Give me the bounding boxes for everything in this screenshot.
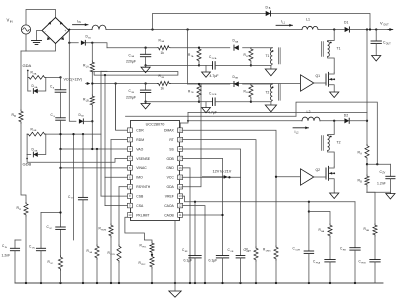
wire pin4 VSENSE route	[27, 158, 127, 162]
wire to Vout node	[350, 29, 389, 31]
wire pin9 CSA route	[105, 205, 127, 207]
pin 15 VCC	[178, 175, 183, 180]
wire T1 to Q1 drain	[328, 57, 335, 73]
svg-text:LB: LB	[86, 99, 89, 102]
ground divider	[389, 192, 391, 193]
transformer T1 secondary	[270, 48, 272, 64]
svg-text:18: 18	[179, 147, 182, 151]
svg-text:15: 15	[179, 175, 182, 179]
svg-text:CAOA: CAOA	[164, 204, 174, 208]
svg-text:+: +	[64, 29, 66, 33]
resistor RB left	[19, 110, 23, 123]
resistor RDMX leg	[274, 246, 278, 260]
svg-text:0.1μF: 0.1μF	[184, 259, 193, 263]
ground channel B	[205, 102, 207, 108]
svg-text:IMO: IMO	[136, 176, 143, 180]
wire pin5 VINAC route	[61, 167, 128, 169]
svg-text:D1: D1	[344, 20, 348, 24]
wire pin13 VREF route	[183, 196, 355, 202]
wire divider tap	[366, 159, 368, 175]
wire GDA long line	[92, 83, 157, 85]
resistor RLB	[90, 95, 94, 106]
resistor RGA	[28, 76, 46, 80]
wire rail to L1	[106, 29, 302, 31]
svg-text:L2: L2	[307, 110, 311, 114]
svg-text:CAOB: CAOB	[164, 213, 174, 217]
arrow IL1	[276, 24, 293, 26]
diode DBA	[234, 45, 239, 50]
wire T2 primary feed	[328, 121, 335, 136]
svg-text:DCB: DCB	[212, 94, 217, 96]
ground T2 secondary	[265, 105, 276, 112]
wire bypass riser	[153, 14, 371, 30]
ground channel A	[205, 65, 207, 72]
wire block A rail	[107, 47, 157, 49]
capacitor CREF leg	[194, 202, 196, 256]
wire driver to gate	[314, 82, 326, 84]
capacitor CVIN leg	[60, 168, 62, 227]
pin 7 RSYNTH	[127, 184, 132, 189]
pin 17 GDB	[178, 156, 183, 161]
diode DB2	[79, 119, 83, 124]
resistor RA divider	[365, 145, 369, 160]
transformer T1 primary	[328, 42, 330, 57]
svg-text:220μF: 220μF	[126, 60, 136, 64]
wire Vout sense down	[366, 30, 368, 145]
wire bridge right corner down	[69, 31, 76, 122]
pin 4 VSENSE	[127, 156, 132, 161]
svg-text:ZV: ZV	[382, 172, 385, 175]
svg-text:GB: GB	[34, 151, 38, 153]
wire AC to bridge bottom	[21, 44, 56, 52]
wire block B vertical	[115, 84, 117, 131]
wire bridge to DB1	[69, 42, 78, 44]
svg-text:UCC28070: UCC28070	[146, 123, 165, 127]
svg-text:GDA: GDA	[166, 185, 174, 189]
wire pin1 CDR route	[116, 129, 128, 131]
diode DB1	[81, 40, 85, 45]
diode D2	[344, 118, 349, 123]
wire L2 to D2	[320, 120, 344, 122]
diode DGB	[27, 154, 31, 156]
capacitor CSS leg	[236, 255, 245, 257]
arrow Iin	[73, 24, 89, 26]
svg-text:CDR: CDR	[136, 129, 144, 133]
capacitor CPKA	[325, 259, 335, 261]
driver U1	[301, 75, 314, 91]
inductor L1	[302, 26, 318, 29]
svg-text:VCC: VCC	[167, 176, 175, 180]
pin 18 SS	[178, 147, 183, 152]
pin 6 IMO	[127, 175, 132, 180]
inductor input choke	[92, 25, 106, 29]
wire pin6 IMO route	[105, 176, 127, 178]
ground CVA	[141, 67, 150, 72]
resistor RLA	[90, 61, 94, 73]
capacitor CAOB comp	[216, 255, 228, 257]
svg-text:13: 13	[179, 194, 182, 198]
ground COUT	[372, 56, 381, 62]
wire IC gnd drop	[174, 221, 176, 283]
svg-text:GDB: GDB	[166, 157, 174, 161]
wire Rbias B leg	[367, 192, 375, 224]
capacitor CPKB	[370, 259, 380, 261]
svg-text:VN: VN	[32, 247, 35, 249]
pin 20 DMAX	[178, 128, 183, 133]
svg-text:SYN: SYN	[110, 254, 115, 256]
ground Q1 source	[330, 92, 339, 98]
wire pin15 VCC route	[183, 176, 241, 178]
capacitor CVA 220uF	[145, 48, 147, 55]
wire L1 node to T1 primary	[328, 30, 335, 42]
svg-text:Q2: Q2	[316, 168, 321, 172]
resistor RTA	[197, 48, 201, 62]
svg-text:17: 17	[179, 157, 182, 161]
resistor RSYN	[117, 245, 121, 262]
wire VCC column	[91, 43, 93, 61]
wire pin14 GDA route	[183, 84, 201, 187]
wire pin7 RSYNTH route	[119, 186, 127, 188]
wire bus from rail down	[187, 30, 189, 85]
svg-text:L1: L1	[306, 18, 310, 22]
svg-text:GND: GND	[166, 166, 174, 170]
svg-text:DMAX: DMAX	[164, 129, 175, 133]
resistor RVA 1k	[157, 46, 170, 50]
pin 19 RT	[178, 137, 183, 142]
wire L1 to D1	[318, 29, 344, 31]
svg-text:T2: T2	[266, 90, 270, 94]
diode D1	[345, 27, 350, 32]
svg-text:10: 10	[128, 213, 131, 217]
svg-text:T1: T1	[266, 54, 270, 58]
svg-text:19: 19	[179, 138, 182, 142]
ground T1 secondary	[265, 69, 276, 76]
svg-text:Q1: Q1	[316, 74, 321, 78]
svg-text:16: 16	[179, 166, 182, 170]
wire channel B lower	[198, 98, 200, 101]
svg-text:T2: T2	[337, 141, 341, 145]
wire T2 to Q2 drain	[328, 151, 335, 167]
pin 13 VREF	[178, 194, 183, 199]
wire VREF leg down	[354, 202, 356, 248]
wire DMAX riser	[180, 113, 188, 124]
wire pin2 RDM route	[111, 139, 127, 141]
svg-text:14: 14	[179, 185, 182, 189]
capacitor CDCA	[212, 62, 214, 70]
wire channel B sense rail	[188, 83, 230, 85]
svg-text:220μF: 220μF	[126, 95, 136, 99]
pin 16 GND	[178, 166, 183, 171]
wire D2 to Vout rail	[349, 120, 367, 122]
svg-text:RB: RB	[343, 249, 347, 251]
capacitor CVB 220uF	[145, 84, 147, 91]
svg-text:PKA: PKA	[316, 261, 321, 264]
wire channel A sense rail	[188, 47, 230, 49]
resistor RBIASA	[328, 224, 332, 237]
svg-text:GA: GA	[34, 86, 38, 89]
wire channel B lower left	[146, 101, 199, 103]
svg-text:12: 12	[179, 204, 182, 208]
wire driver B drop	[308, 202, 310, 251]
svg-text:G: G	[53, 116, 55, 118]
wire pin8 CSB route	[101, 195, 127, 197]
wire bus pair upper	[92, 72, 178, 76]
pin 5 VINAC	[127, 166, 132, 171]
diode DGA	[27, 77, 29, 91]
op-amp U1 UCC28070 IC body	[131, 121, 180, 221]
svg-text:4.7μF: 4.7μF	[208, 110, 217, 114]
transistor Q1	[325, 74, 327, 85]
svg-text:RT: RT	[169, 138, 173, 142]
svg-text:VREF: VREF	[165, 194, 174, 198]
wire divider bottom	[367, 186, 390, 192]
gate network B	[26, 134, 28, 154]
svg-text:1k: 1k	[161, 87, 165, 91]
wire driver2 to gate	[314, 176, 326, 178]
wire pin20 route to driver B	[183, 130, 276, 246]
capacitor COUT	[375, 30, 377, 42]
resistor RA left	[24, 203, 28, 217]
wire gate A out	[46, 76, 61, 78]
pin 10 PKLIMIT	[127, 213, 132, 218]
wire pin18 SS route	[183, 149, 241, 256]
svg-text:CSA: CSA	[136, 204, 144, 208]
arrow IL2	[293, 127, 309, 129]
wire branch to RbiasA leg	[309, 212, 330, 225]
wire gate B out	[46, 133, 101, 135]
wire pin11 CAOB route	[183, 214, 223, 216]
svg-text:IN: IN	[10, 19, 13, 23]
resistor RBB burden	[249, 84, 253, 98]
ground CVB	[141, 104, 150, 109]
pin 9 CSA	[127, 203, 132, 208]
AC source VIN	[21, 25, 30, 34]
ground main	[169, 291, 181, 297]
wire pin12 CAOA route	[183, 206, 205, 283]
resistor RB divider	[365, 175, 369, 186]
svg-text:1.2nF: 1.2nF	[2, 254, 11, 258]
svg-text:1k: 1k	[161, 51, 165, 55]
svg-text:20: 20	[179, 128, 182, 132]
svg-text:VINAC: VINAC	[136, 166, 147, 170]
svg-text:SS: SS	[169, 147, 174, 151]
pin 12 CAOA	[178, 203, 183, 208]
svg-text:CDR: CDR	[295, 249, 300, 251]
arrow VOUT	[389, 28, 392, 31]
wire VAO comp leg	[96, 149, 98, 245]
svg-text:GDA: GDA	[23, 63, 32, 68]
wire VAO cap leg	[82, 134, 84, 197]
svg-text:OUT: OUT	[386, 42, 392, 45]
wire L2 feed	[188, 120, 302, 122]
svg-text:RDM: RDM	[101, 229, 106, 231]
svg-text:VC: VC	[49, 228, 52, 230]
svg-text:GB: GB	[33, 130, 37, 132]
wire input rail	[69, 29, 92, 31]
svg-text:OUT: OUT	[383, 23, 389, 27]
capacitor CB	[60, 77, 62, 89]
svg-text:RSYNTH: RSYNTH	[136, 185, 150, 189]
diode DBB	[234, 81, 239, 86]
pin 2 RDM	[127, 137, 132, 142]
wire pin16 GND route	[183, 168, 190, 283]
capacitor CREF2	[350, 247, 360, 249]
wire stub left mid	[73, 134, 75, 240]
inductor L2	[302, 117, 320, 121]
wire branch driver B input	[276, 176, 301, 178]
bridge rectifier BR1	[42, 18, 69, 44]
wire pin3 VAO route	[61, 148, 128, 150]
transformer T2 secondary	[270, 84, 272, 100]
svg-text:DCA: DCA	[212, 57, 217, 60]
gate network A	[27, 70, 29, 72]
pin 14 GDA	[178, 184, 183, 189]
svg-text:LA: LA	[86, 65, 89, 68]
svg-text:VSENSE: VSENSE	[136, 157, 150, 161]
ground bridge	[37, 31, 43, 41]
capacitor CDCB	[212, 98, 214, 106]
pin 3 VAO	[127, 147, 132, 152]
svg-text:VC: VC	[50, 263, 53, 265]
pin 1 CDR	[127, 128, 132, 133]
svg-text:VAO: VAO	[136, 147, 143, 151]
wire ground rail	[15, 282, 383, 284]
resistor RPK1	[150, 242, 154, 254]
svg-text:PKLIMIT: PKLIMIT	[136, 213, 149, 217]
capacitor CZV	[389, 164, 391, 176]
svg-text:VCC(>13V): VCC(>13V)	[64, 77, 82, 81]
svg-text:GA: GA	[33, 72, 37, 75]
wire pin10 PKLIMIT route	[125, 217, 152, 242]
resistor RRT leg	[254, 247, 258, 261]
svg-text:RDM: RDM	[136, 138, 144, 142]
svg-text:T1: T1	[337, 47, 341, 51]
wire channel A lower left	[146, 64, 199, 66]
svg-text:1.2nF: 1.2nF	[377, 182, 386, 186]
resistor RVAO	[95, 245, 99, 259]
wire AC to bridge top	[26, 10, 56, 25]
resistor RRDM	[109, 224, 113, 237]
resistor RBA burden	[249, 48, 253, 62]
svg-text:CSB: CSB	[136, 194, 144, 198]
capacitor CIN leg	[15, 239, 21, 241]
svg-text:12V to 21V: 12V to 21V	[213, 169, 232, 173]
wire DB1 to VCC column	[86, 43, 107, 48]
wire VSENSE feedback route	[296, 102, 377, 164]
svg-text:4.7μF: 4.7μF	[210, 74, 219, 78]
svg-text:PKB: PKB	[361, 262, 366, 264]
capacitor CVCC2	[56, 117, 66, 119]
transformer T2 primary	[328, 136, 330, 151]
pin 8 CSB	[127, 194, 132, 199]
wire channel A lower	[198, 62, 200, 65]
wire pin19 RT route	[183, 140, 256, 247]
transistor Q2	[325, 168, 327, 179]
wire bus above IC	[126, 115, 297, 117]
capacitor CVCC leg	[56, 226, 66, 228]
resistor RBIASB	[373, 224, 377, 236]
svg-text:0.1μF: 0.1μF	[209, 259, 218, 263]
svg-text:IN: IN	[78, 21, 81, 24]
svg-text:OB: OB	[230, 251, 234, 253]
pin 11 CAOB	[178, 213, 183, 218]
resistor RVB 1k	[157, 81, 170, 85]
resistor RGB	[27, 132, 46, 136]
wire left sense column	[20, 51, 22, 110]
capacitor CCDR leg	[304, 250, 314, 252]
wire top bus right	[188, 112, 367, 114]
driver U2	[301, 169, 314, 185]
resistor RPK2	[150, 256, 154, 269]
diode DB	[266, 11, 271, 16]
resistor RTB	[197, 84, 201, 98]
resistor RVC	[58, 256, 62, 270]
ground Q2 source	[330, 193, 339, 199]
wire pin17 GDB route	[183, 158, 223, 255]
svg-text:D2: D2	[344, 114, 348, 118]
svg-text:DMX: DMX	[266, 250, 271, 252]
